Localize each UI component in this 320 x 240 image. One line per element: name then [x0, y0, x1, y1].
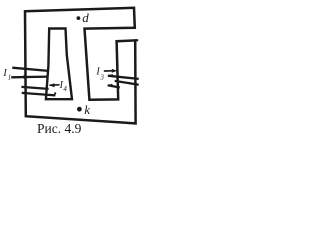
svg-text:k: k — [84, 102, 90, 117]
svg-text:Рис. 4.9: Рис. 4.9 — [37, 121, 82, 136]
svg-text:3: 3 — [99, 73, 104, 81]
svg-text:1: 1 — [8, 74, 12, 82]
svg-text:4: 4 — [63, 85, 67, 93]
svg-text:I: I — [2, 68, 7, 79]
svg-text:d: d — [82, 10, 89, 25]
